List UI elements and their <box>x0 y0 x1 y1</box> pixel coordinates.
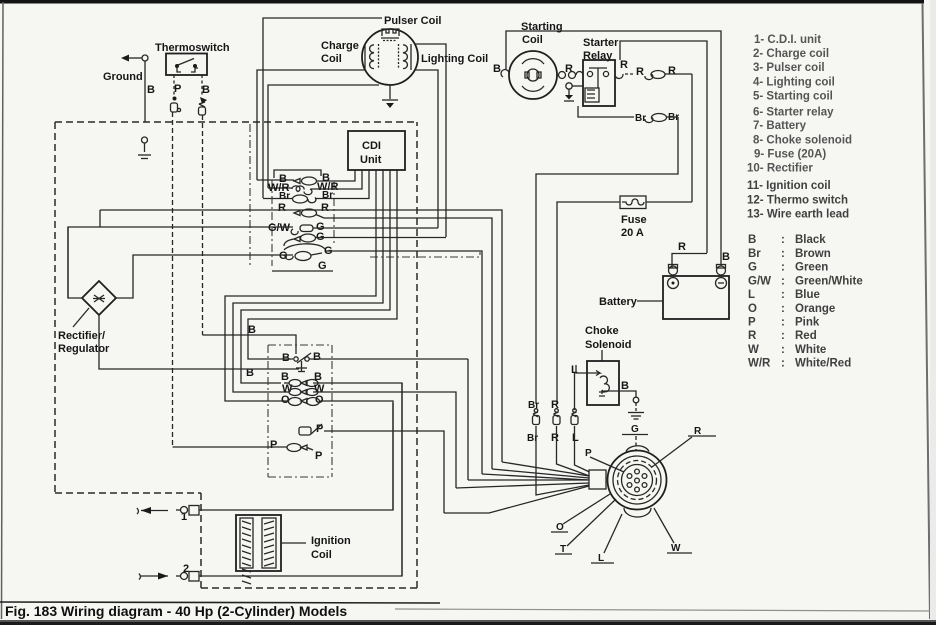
svg-text:12- Thermo switch: 12- Thermo switch <box>747 195 848 207</box>
svg-text:B: B <box>248 324 256 336</box>
svg-text:L: L <box>748 289 755 301</box>
starting coil label <box>521 21 563 46</box>
ignition coil label <box>281 535 351 561</box>
svg-text:7- Battery: 7- Battery <box>753 120 807 132</box>
svg-text:White/Red: White/Red <box>795 358 851 370</box>
legend numbered list <box>747 34 852 221</box>
switch row B-B <box>276 351 468 364</box>
connector row B-B low <box>281 371 402 576</box>
svg-text:B: B <box>202 84 210 96</box>
svg-text:Solenoid: Solenoid <box>585 339 631 351</box>
svg-text:White: White <box>795 344 826 356</box>
rectifier label <box>58 330 110 355</box>
svg-text:Battery: Battery <box>599 296 638 308</box>
thermoswitch B lead <box>199 75 211 335</box>
connector label R <box>652 426 716 467</box>
node B starting coil <box>493 63 509 77</box>
svg-text:R: R <box>678 241 686 253</box>
wire Br column to fan <box>536 426 589 495</box>
charge coil label <box>321 40 359 65</box>
thermoswitch P lead <box>171 75 182 447</box>
svg-text:Regulator: Regulator <box>58 343 110 355</box>
wire switch B down right <box>467 359 469 480</box>
wire spark 2 <box>199 383 402 576</box>
wire fuse right <box>646 201 692 203</box>
svg-text:13- Wire earth lead: 13- Wire earth lead <box>747 209 849 221</box>
svg-text:Red: Red <box>795 330 817 342</box>
svg-text::: : <box>781 262 785 274</box>
svg-text:G/W: G/W <box>268 222 291 234</box>
svg-text::: : <box>781 330 785 342</box>
svg-text:Unit: Unit <box>360 154 382 166</box>
svg-text:Pulser Coil: Pulser Coil <box>384 15 441 27</box>
svg-text:CDI: CDI <box>362 140 381 152</box>
wire choke L <box>576 365 600 376</box>
connector R-R relay <box>625 65 692 80</box>
fan wire 4 <box>468 479 589 481</box>
connector row W-W <box>282 383 456 488</box>
connector row O-O <box>281 394 393 510</box>
choke solenoid label <box>585 325 631 351</box>
connector label T <box>555 499 616 555</box>
column R <box>551 399 560 444</box>
svg-text:Coil: Coil <box>321 53 342 65</box>
svg-text:B: B <box>493 63 501 75</box>
svg-text::: : <box>781 276 785 288</box>
svg-text:6- Starter relay: 6- Starter relay <box>753 107 834 119</box>
wire battery R <box>672 254 707 268</box>
wire charge coil bottom <box>268 85 379 188</box>
CDI lead B <box>354 169 356 172</box>
connector label P <box>585 448 624 472</box>
wire R right <box>324 218 492 469</box>
svg-text:P: P <box>315 450 322 462</box>
legend color codes <box>748 234 863 370</box>
CDI unit <box>348 131 405 170</box>
wire starting B to battery top <box>506 31 721 266</box>
wire spark 1 <box>199 403 393 510</box>
svg-text:B: B <box>313 351 321 363</box>
switch row earth <box>296 361 307 372</box>
svg-text:Fig. 183 Wiring diagram - 40 H: Fig. 183 Wiring diagram - 40 Hp (2-Cylin… <box>5 603 347 619</box>
svg-text:B: B <box>281 371 289 383</box>
rectifier/regulator <box>73 281 116 327</box>
wire charge coil top <box>257 70 365 180</box>
connector label L <box>591 514 622 564</box>
svg-text::: : <box>781 248 785 260</box>
node G connector top <box>622 424 648 450</box>
wire R long <box>100 210 502 462</box>
connector row R-R <box>278 202 329 218</box>
svg-text:Fuse: Fuse <box>621 214 647 226</box>
wire pulser to left <box>263 18 382 198</box>
terminal 2 arrow <box>139 573 168 580</box>
svg-text:P: P <box>174 83 181 95</box>
engine boundary dashed box <box>55 122 417 588</box>
wire rectifier right leg <box>116 255 293 298</box>
svg-text:20 A: 20 A <box>621 227 644 239</box>
relay bottom lead <box>578 106 634 117</box>
svg-text:Pink: Pink <box>795 317 820 329</box>
relay right contact <box>615 59 628 79</box>
svg-text:O: O <box>748 303 757 315</box>
wire battery label lead <box>637 300 663 302</box>
svg-text:Coil: Coil <box>311 549 332 561</box>
svg-text:R: R <box>620 59 628 71</box>
svg-text:L: L <box>572 432 579 444</box>
wire R column to fan <box>557 426 590 476</box>
pulser coil <box>381 29 399 41</box>
svg-text:B: B <box>282 352 290 364</box>
fan wire 2 <box>492 469 589 478</box>
svg-text:Starter: Starter <box>583 37 619 49</box>
svg-text:1- C.D.I. unit: 1- C.D.I. unit <box>754 34 821 46</box>
wire Br down to columns <box>536 117 678 404</box>
wire L column to tab <box>575 426 590 472</box>
main connector <box>608 446 667 517</box>
svg-text:G: G <box>748 262 757 274</box>
svg-text::: : <box>781 234 785 246</box>
svg-text::: : <box>781 289 785 301</box>
svg-text:Choke: Choke <box>585 325 619 337</box>
wire rectifier bottom B <box>99 315 299 369</box>
connector Br-Br relay <box>635 112 679 124</box>
svg-text:R: R <box>668 65 676 77</box>
svg-text:Ignition: Ignition <box>311 535 351 547</box>
svg-text:9- Fuse (20A): 9- Fuse (20A) <box>754 149 826 161</box>
wire G loop right <box>326 251 482 474</box>
svg-text:R: R <box>636 66 644 78</box>
svg-text:B: B <box>722 251 730 263</box>
wire earth lead joint <box>138 137 151 159</box>
fan wire 1 <box>502 462 589 476</box>
terminal 2 <box>176 563 199 581</box>
svg-text:G: G <box>279 250 288 262</box>
svg-text:10- Rectifier: 10- Rectifier <box>747 163 813 175</box>
charge coil <box>365 44 379 70</box>
svg-text::: : <box>781 358 785 370</box>
svg-text:R: R <box>278 202 286 214</box>
wire lighting bottom <box>414 70 438 228</box>
svg-text:Charge: Charge <box>321 40 359 52</box>
connector row G-G loop <box>279 244 333 262</box>
wire thermo B to switch row <box>203 335 297 354</box>
connector row G2 <box>284 231 446 246</box>
svg-text:Br: Br <box>635 113 646 124</box>
connector label W <box>654 508 692 554</box>
svg-text:8- Choke solenoid: 8- Choke solenoid <box>753 135 852 147</box>
svg-text:Coil: Coil <box>522 34 543 46</box>
wire lighting top <box>415 44 446 237</box>
svg-text:3- Pulser coil: 3- Pulser coil <box>753 62 825 74</box>
choke earth <box>628 397 644 419</box>
terminal 1 <box>176 506 199 524</box>
fan wire 3 <box>482 474 589 480</box>
ignition coil <box>236 515 281 584</box>
svg-text:B: B <box>147 84 155 96</box>
fan wire 5 <box>456 483 589 488</box>
svg-text:Lighting Coil: Lighting Coil <box>421 53 488 65</box>
svg-text:Br: Br <box>322 190 333 201</box>
fuse label <box>621 214 647 239</box>
relay ground <box>564 83 583 101</box>
svg-text:Thermoswitch: Thermoswitch <box>155 42 230 54</box>
relay top lead <box>620 41 707 253</box>
svg-text::: : <box>781 303 785 315</box>
connector row W/R-W/R <box>268 170 362 195</box>
connector row B-B <box>279 170 355 185</box>
svg-text:11- Ignition coil: 11- Ignition coil <box>747 180 831 192</box>
wire charge bottom to row WR <box>268 187 292 189</box>
column Br <box>527 400 540 444</box>
svg-text:2- Charge coil: 2- Charge coil <box>753 48 829 60</box>
svg-text:G: G <box>318 260 327 272</box>
connector row P-P <box>173 439 323 462</box>
svg-text::: : <box>781 317 785 329</box>
svg-text:P: P <box>748 317 756 329</box>
svg-text:B: B <box>621 380 629 392</box>
wire pulser to row Br <box>263 198 292 200</box>
wire choke B to earth <box>604 391 636 397</box>
svg-text:Blue: Blue <box>795 289 820 301</box>
wire R-R to fuse <box>691 74 693 202</box>
upper connector group bracket <box>250 124 334 271</box>
connector label O <box>551 494 610 533</box>
svg-text:R: R <box>748 330 757 342</box>
main connector tab <box>589 470 606 489</box>
relay left contacts <box>557 63 583 79</box>
CDI lead nested 3 (to B row) <box>241 170 390 383</box>
svg-text:P: P <box>270 439 277 451</box>
connector row G/W-G <box>268 221 325 235</box>
CDI lead nested 1 (to O row) <box>225 170 376 401</box>
svg-text:Br: Br <box>279 191 290 202</box>
svg-text:R: R <box>321 202 329 214</box>
starter relay label <box>583 37 619 62</box>
svg-text:Green: Green <box>795 262 828 274</box>
choke solenoid <box>587 350 619 405</box>
svg-text:W/R: W/R <box>748 358 771 370</box>
svg-text:Brown: Brown <box>795 248 831 260</box>
svg-text:Black: Black <box>795 234 826 246</box>
CDI lead nested 2 (to W row) <box>233 170 383 392</box>
thermoswitch <box>166 54 207 76</box>
svg-text:Green/White: Green/White <box>795 276 863 288</box>
fuse <box>620 196 646 209</box>
lighting coil <box>399 44 412 70</box>
terminal 1 arrow <box>137 507 168 514</box>
starter relay <box>583 60 615 106</box>
svg-text:G/W: G/W <box>748 276 771 288</box>
svg-text:R: R <box>551 432 559 444</box>
svg-text:G: G <box>631 424 639 435</box>
svg-text:4- Lighting coil: 4- Lighting coil <box>753 77 835 89</box>
svg-text:W: W <box>748 344 759 356</box>
svg-text:Br: Br <box>748 248 761 260</box>
lower dashdot box <box>268 345 332 477</box>
column L <box>571 373 579 444</box>
starting coil <box>509 51 557 99</box>
wire charge top to row B <box>257 179 294 181</box>
svg-text:Orange: Orange <box>795 303 835 315</box>
magneto ground <box>382 85 398 108</box>
ground symbol <box>121 55 148 123</box>
P switch <box>299 423 444 513</box>
connector row Br-Br <box>279 170 369 203</box>
fan wire 6 (P) <box>444 486 589 513</box>
wire G right (to lighting) <box>313 227 438 229</box>
svg-text:5- Starting coil: 5- Starting coil <box>753 91 833 103</box>
wire rectifier left leg <box>68 210 100 298</box>
CDI lead nested 4 (to switch row) <box>248 170 397 359</box>
svg-text:B: B <box>748 234 756 246</box>
wire G/W left (to rectifier) <box>68 227 293 298</box>
wire fuse left <box>557 202 620 404</box>
svg-text:Ground: Ground <box>103 71 143 83</box>
svg-text::: : <box>781 344 785 356</box>
battery <box>663 265 729 320</box>
svg-text:Rectifier/: Rectifier/ <box>58 330 105 342</box>
magneto flywheel <box>362 29 418 85</box>
upper dashdot tail <box>370 252 480 257</box>
